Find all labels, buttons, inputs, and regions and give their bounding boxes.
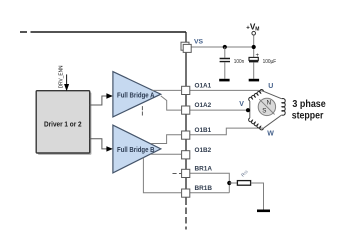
wire DRV_ENN bbox=[66, 74, 68, 84]
motor frame top right bbox=[264, 91, 282, 99]
pad VS bbox=[181, 42, 191, 52]
wire main bus vertical bbox=[185, 32, 187, 205]
wire resistor to ground bbox=[251, 183, 264, 210]
wire BR1A right bbox=[190, 173, 229, 193]
motor winding right bbox=[282, 99, 285, 116]
svg-text:S: S bbox=[262, 107, 266, 114]
svg-text:O1A2: O1A2 bbox=[195, 102, 212, 109]
wire VM rail top dash bbox=[20, 31, 27, 33]
node junction 100uF bbox=[252, 45, 256, 49]
wire O1A2 left bbox=[161, 96, 181, 110]
node junction sense bbox=[227, 181, 231, 185]
terminal +VM bbox=[252, 31, 256, 35]
motor rotor circle bbox=[258, 98, 275, 115]
wire driver to bridge A bbox=[90, 96, 107, 105]
svg-text:BR1B: BR1B bbox=[195, 185, 213, 192]
wire driver to bridge B bbox=[90, 139, 107, 149]
wire O1B1 left bbox=[151, 135, 181, 144]
pad O1A1 bbox=[182, 86, 190, 94]
wire VM rail top bbox=[31, 31, 187, 33]
pad O1A2 bbox=[182, 106, 190, 114]
svg-text:Full Bridge B: Full Bridge B bbox=[117, 147, 155, 154]
wire O1A1 to motor U bbox=[190, 89, 264, 92]
wire bus dashed continuation bbox=[185, 208, 187, 230]
resistor RS1 bbox=[237, 181, 250, 186]
wire to resistor bbox=[229, 182, 237, 184]
block Driver 1 or 2 bbox=[36, 91, 89, 153]
dashed stub BR1A bbox=[173, 173, 182, 175]
node junction 100n bbox=[223, 45, 227, 49]
svg-text:DRV_ENN: DRV_ENN bbox=[58, 65, 64, 88]
pad O1B2 bbox=[182, 151, 190, 159]
node junction V bbox=[246, 108, 250, 112]
wire O1B2 left bbox=[151, 153, 182, 155]
svg-text:3 phase: 3 phase bbox=[292, 99, 326, 110]
pad BR1A bbox=[182, 169, 190, 177]
svg-text:100µF: 100µF bbox=[263, 59, 277, 65]
ground C1 bbox=[219, 79, 229, 82]
wire VS to supply caps bbox=[190, 46, 254, 48]
svg-text:+VM: +VM bbox=[246, 22, 259, 32]
motor frame left bbox=[249, 101, 251, 118]
ground C2 bbox=[249, 79, 259, 82]
svg-text:U: U bbox=[268, 83, 273, 90]
svg-text:V: V bbox=[239, 101, 244, 108]
svg-text:Full Bridge A: Full Bridge A bbox=[117, 93, 155, 100]
svg-text:W: W bbox=[267, 131, 274, 138]
wire BR1B from bridge B bbox=[143, 158, 181, 193]
pad BR1B bbox=[182, 189, 190, 197]
capacitor C1 100n bbox=[220, 47, 230, 79]
arrow into bridge B bbox=[106, 146, 113, 151]
ground sense bbox=[257, 210, 270, 213]
svg-text:O1B1: O1B1 bbox=[195, 127, 212, 134]
svg-text:O1A1: O1A1 bbox=[195, 83, 212, 90]
pad O1B1 bbox=[182, 131, 190, 139]
wire O1A1 left bbox=[152, 89, 182, 91]
amplifier Full Bridge B bbox=[113, 125, 161, 173]
svg-text:RS1: RS1 bbox=[240, 168, 249, 177]
wire O1B1 to motor W bbox=[190, 128, 263, 135]
motor rotor diagonal bbox=[259, 99, 274, 114]
wire VM terminal down bbox=[253, 36, 255, 48]
svg-text:VS: VS bbox=[194, 39, 204, 46]
driver box shadow bbox=[38, 92, 92, 154]
svg-text:N: N bbox=[267, 99, 271, 106]
amplifier Full Bridge A bbox=[113, 72, 161, 117]
svg-text:BR1A: BR1A bbox=[195, 166, 213, 173]
svg-text:stepper: stepper bbox=[292, 110, 324, 121]
arrow into bridge A bbox=[106, 93, 113, 98]
capacitor C2 100uF bbox=[249, 49, 260, 79]
motor frame bottom right bbox=[264, 115, 282, 128]
svg-text:100n: 100n bbox=[234, 59, 244, 65]
motor winding V-W bbox=[249, 118, 264, 130]
svg-text:O1B2: O1B2 bbox=[195, 147, 212, 154]
wire BR1B right bbox=[190, 192, 229, 194]
motor winding U-V bbox=[249, 90, 264, 101]
wire O1A2 to motor V bbox=[190, 109, 250, 111]
svg-text:+: + bbox=[256, 53, 260, 59]
svg-text:Driver 1 or 2: Driver 1 or 2 bbox=[44, 122, 82, 129]
arrow DRV_ENN bbox=[64, 84, 69, 91]
dashed stub below bridge A bbox=[141, 106, 143, 115]
